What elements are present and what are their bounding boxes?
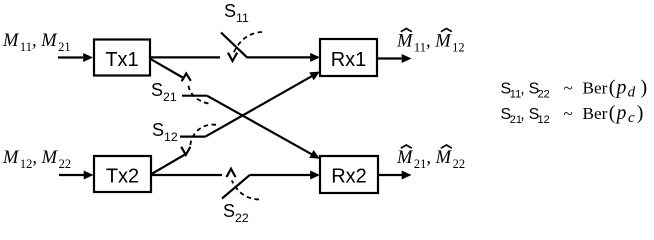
wire input arrow to Tx2 bbox=[59, 171, 94, 180]
switch S12 arc arrowhead (down) bbox=[181, 147, 190, 155]
wire switch S22 to Rx2 with arrowhead bbox=[250, 171, 320, 180]
svg-text:S21,S12~Ber(pc): S21,S12~Ber(pc) bbox=[501, 102, 644, 126]
block Rx2 bbox=[320, 156, 378, 193]
switch S11 lever (open) bbox=[221, 33, 248, 58]
switch S22 arc arrowhead (up) bbox=[227, 169, 236, 177]
switch S11 arc arrowhead (down) bbox=[228, 53, 237, 61]
svg-text:Rx1: Rx1 bbox=[331, 49, 367, 71]
switch S21 closing motion arc bbox=[188, 84, 209, 104]
wire switch S11 to Rx1 with arrowhead bbox=[248, 53, 321, 62]
wire Rx2 output arrow bbox=[378, 171, 412, 180]
wire Tx1 to switch S11 bbox=[150, 56, 220, 58]
wire switch S12 to Rx1 (diagonal) with arrowhead bbox=[205, 72, 320, 137]
block Tx1 bbox=[94, 40, 150, 76]
switch S12 closing motion arc bbox=[190, 125, 216, 146]
hat over M12 bbox=[441, 29, 452, 32]
svg-text:Rx2: Rx2 bbox=[331, 166, 367, 188]
wire input arrow to Tx1 bbox=[58, 53, 93, 62]
switch S21 arc arrowhead (up) bbox=[182, 74, 191, 82]
switch S22 closing motion arc bbox=[232, 181, 259, 200]
switch S21 lever (open, horizontal) bbox=[182, 95, 207, 97]
block Tx2 bbox=[94, 156, 151, 192]
hat over M22 bbox=[441, 145, 452, 148]
svg-text:Tx2: Tx2 bbox=[106, 166, 139, 188]
switch S11 closing motion arc bbox=[234, 32, 262, 52]
wire Tx2 to switch S22 bbox=[151, 174, 222, 176]
block Rx1 bbox=[320, 39, 377, 76]
svg-text:Tx1: Tx1 bbox=[105, 49, 138, 71]
hat over M21 bbox=[401, 145, 412, 148]
hat over M11 bbox=[401, 29, 412, 32]
switch S12 lever (open, horizontal) bbox=[180, 136, 205, 138]
wire Tx1 to switch S21 (diagonal) bbox=[150, 59, 184, 78]
wire switch S21 to Rx2 (diagonal) with arrowhead bbox=[207, 96, 320, 159]
wire Tx2 to switch S12 (diagonal) bbox=[152, 153, 188, 174]
wire Rx1 output arrow bbox=[377, 54, 412, 63]
switch S22 lever (open) bbox=[222, 175, 250, 199]
